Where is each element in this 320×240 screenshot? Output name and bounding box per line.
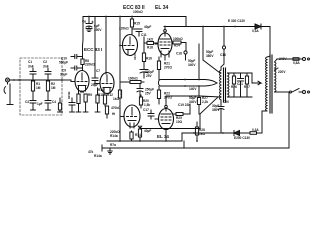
- input jack: [4, 78, 62, 105]
- svg-text:270Ω: 270Ω: [164, 66, 172, 70]
- svg-text:240V: 240V: [279, 57, 287, 61]
- wire: jog down at x=186: [185, 17, 187, 27]
- svg-text:C19 22k: C19 22k: [178, 103, 190, 107]
- ground symbol: [108, 148, 112, 154]
- svg-text:1µF: 1µF: [37, 102, 43, 106]
- svg-text:40µF: 40µF: [144, 25, 151, 29]
- resistor R24: [172, 41, 186, 51]
- wire: screen vertical x199: [198, 44, 200, 80]
- wire: top HT rail: [83, 16, 186, 18]
- capacitor C3: [30, 101, 36, 111]
- svg-text:30µF: 30µF: [60, 73, 67, 77]
- node C18: [184, 51, 187, 54]
- svg-text:R11: R11: [98, 93, 104, 97]
- wire: box output to U1a grid: [62, 79, 71, 81]
- svg-text:1M: 1M: [36, 86, 41, 90]
- capacitor C1: [30, 68, 36, 80]
- tick left end: [101, 145, 103, 151]
- wire: V2 anode to OT bottom: [166, 95, 200, 97]
- resistor R14: [130, 131, 133, 141]
- capacitor C4: [45, 101, 51, 111]
- svg-text:470kΩ: 470kΩ: [111, 106, 121, 110]
- svg-text:C3: C3: [25, 100, 29, 104]
- svg-text:EL 34: EL 34: [157, 134, 169, 139]
- resistor R26: [232, 73, 235, 97]
- svg-text:R14a: R14a: [94, 154, 102, 158]
- svg-text:25µF: 25µF: [91, 83, 98, 87]
- output transformer T1: [220, 67, 230, 103]
- capacitor C9: [71, 66, 83, 70]
- svg-text:R24: R24: [174, 44, 180, 48]
- capacitor C17: [148, 110, 154, 119]
- capacitor C11: [132, 29, 142, 36]
- resistor R7 cathode U1a: [76, 91, 81, 112]
- svg-text:R16: R16: [146, 57, 152, 61]
- resistor R12: [103, 93, 106, 106]
- svg-text:2,2k: 2,2k: [202, 100, 208, 104]
- wire: second HT rail: [164, 26, 270, 28]
- wire: tube A anode feed from rail: [82, 17, 85, 60]
- wire: anode U1b to rail: [105, 17, 107, 75]
- svg-text:3nF: 3nF: [43, 65, 49, 69]
- svg-text:25V: 25V: [145, 92, 152, 96]
- capacitor C13: [137, 84, 143, 97]
- svg-text:R14a: R14a: [110, 134, 118, 138]
- svg-text:C2: C2: [43, 60, 47, 64]
- resistor R28: [195, 122, 198, 141]
- svg-text:100kΩ: 100kΩ: [173, 37, 183, 41]
- wire: B+ drop to transformer centre tap: [202, 27, 204, 61]
- svg-text:220V: 220V: [278, 70, 286, 74]
- wire: T2 left bottom lead: [262, 110, 267, 112]
- svg-text:C8: C8: [80, 90, 84, 94]
- diode D2: [234, 131, 250, 136]
- triode U2b (ECC83 II lower): [121, 105, 140, 128]
- wire: diagonal to OT top: [203, 60, 220, 73]
- wire: anode lens to output transformer: [159, 80, 218, 87]
- heater rail: [102, 93, 289, 148]
- svg-text:140V: 140V: [189, 87, 197, 91]
- wire: mains lower + switch S1: [275, 89, 303, 94]
- bottom ground rail: [107, 140, 182, 142]
- resistor R2: [46, 80, 49, 100]
- resistor R27: [245, 73, 248, 97]
- wire: secondary top: [228, 72, 253, 74]
- wire: feedback line: [138, 126, 200, 129]
- capacitor C10: [71, 55, 83, 59]
- capacitor Ca: [86, 17, 94, 32]
- capacitor C6: [69, 98, 75, 112]
- svg-text:C4: C4: [52, 100, 56, 104]
- resistor R16: [142, 37, 145, 69]
- svg-text:C18: C18: [176, 52, 182, 56]
- wire: secondary bottom: [228, 96, 253, 98]
- resistor R17a: [121, 81, 144, 84]
- svg-text:220kΩ: 220kΩ: [119, 27, 129, 31]
- wire: mains 240V tap: [275, 59, 294, 62]
- svg-text:1M: 1M: [51, 86, 56, 90]
- capacitor C7: [92, 17, 100, 84]
- svg-text:340V: 340V: [189, 100, 197, 104]
- wire: jog up: [181, 133, 183, 141]
- svg-text:R27: R27: [244, 85, 250, 89]
- svg-text:R9: R9: [88, 93, 92, 97]
- svg-text:1kΩ: 1kΩ: [199, 132, 206, 136]
- terminal mains L: [303, 58, 306, 61]
- wire: long vertical bus left of U2a: [119, 17, 121, 91]
- fuse F1: [293, 58, 302, 61]
- wire: drop to power transformer: [269, 27, 271, 57]
- svg-text:3nF: 3nF: [28, 65, 34, 69]
- svg-text:100kΩ: 100kΩ: [133, 10, 143, 14]
- triode U1a (ECC83 I left): [75, 71, 89, 92]
- svg-text:100k: 100k: [119, 90, 123, 97]
- resistor R5: [58, 98, 63, 112]
- power transformer T2: [266, 55, 277, 113]
- svg-text:380V: 380V: [206, 54, 214, 58]
- svg-text:E250 C130: E250 C130: [234, 136, 250, 140]
- svg-text:820Ω: 820Ω: [67, 91, 71, 99]
- svg-text:C21: C21: [237, 82, 243, 86]
- resistor R19: [144, 42, 158, 45]
- svg-text:0,3A: 0,3A: [252, 29, 259, 33]
- svg-text:C7: C7: [96, 69, 100, 73]
- resistor R13: [105, 106, 108, 118]
- resistor R22: [157, 87, 160, 105]
- triode U2a (ECC83 II upper): [120, 35, 138, 56]
- wire: 220V tap: [275, 68, 279, 70]
- svg-text:340V: 340V: [188, 63, 196, 67]
- svg-text:40µF: 40µF: [144, 129, 151, 133]
- svg-text:220kΩ: 220kΩ: [85, 63, 95, 67]
- svg-text:0,3A: 0,3A: [252, 128, 259, 132]
- wire: arrow to mains transformer: [251, 73, 253, 83]
- bottom HT return rail: [182, 132, 233, 134]
- resistor R20: [139, 95, 142, 108]
- capacitor C2: [45, 68, 51, 80]
- triode U1b (ECC83 I right): [100, 73, 114, 94]
- EL34 lower V2: [155, 96, 174, 141]
- svg-text:500µF: 500µF: [59, 61, 68, 65]
- svg-text:ECC 83 I: ECC 83 I: [84, 47, 102, 52]
- svg-text:C1: C1: [28, 60, 32, 64]
- svg-text:EL 34: EL 34: [155, 5, 168, 11]
- wire: diagonal from bottom: [200, 97, 218, 114]
- svg-text:R7a: R7a: [110, 143, 116, 147]
- svg-text:340V: 340V: [133, 53, 137, 60]
- svg-text:270Ω: 270Ω: [164, 96, 172, 100]
- diode D1 top: [255, 24, 261, 29]
- svg-text:350V: 350V: [212, 108, 220, 112]
- svg-text:1,5k: 1,5k: [144, 103, 150, 107]
- text labels: [123, 5, 168, 11]
- svg-text:C11: C11: [141, 33, 147, 37]
- resistor R23: [138, 126, 141, 141]
- svg-text:350V: 350V: [94, 28, 102, 32]
- capacitor C20: [218, 103, 224, 133]
- terminal mains N: [303, 91, 306, 94]
- capacitor C12: [140, 70, 148, 79]
- svg-text:Hi: Hi: [112, 112, 115, 116]
- resistor R21: [157, 57, 160, 80]
- resistor R29: [197, 98, 200, 105]
- svg-text:1kΩ: 1kΩ: [147, 38, 154, 42]
- svg-text:25V: 25V: [146, 74, 153, 78]
- resistor R1: [31, 80, 34, 100]
- svg-text:0,8A: 0,8A: [293, 61, 300, 65]
- svg-text:R14: R14: [135, 133, 141, 137]
- resistor R9: [95, 88, 100, 112]
- capacitor C21: [238, 73, 244, 97]
- svg-text:100kΩ: 100kΩ: [128, 77, 138, 81]
- svg-text:R10: R10: [98, 88, 104, 92]
- resistor R25: [174, 104, 191, 116]
- wire: C16 drop: [223, 27, 225, 46]
- svg-text:C20: C20: [223, 100, 229, 104]
- svg-text:Ca: Ca: [82, 20, 86, 24]
- svg-text:E 330 C130: E 330 C130: [228, 19, 245, 23]
- resistor R8: [81, 59, 84, 71]
- node C16: [222, 46, 225, 49]
- fuse F2: [250, 132, 262, 135]
- svg-text:C16: C16: [220, 53, 226, 57]
- resistor R15: [130, 17, 133, 35]
- svg-text:47k: 47k: [88, 150, 94, 154]
- wire: HT rail into T2 top: [267, 56, 270, 57]
- svg-text:C17: C17: [143, 108, 149, 112]
- dashed EQ box: [20, 58, 62, 115]
- svg-text:R15: R15: [134, 22, 140, 26]
- svg-text:10Ω: 10Ω: [176, 120, 183, 124]
- svg-text:R18: R18: [147, 46, 153, 50]
- resistor R10: [83, 94, 88, 112]
- resistor R17: [118, 90, 121, 98]
- EL34 upper V1: [155, 27, 172, 61]
